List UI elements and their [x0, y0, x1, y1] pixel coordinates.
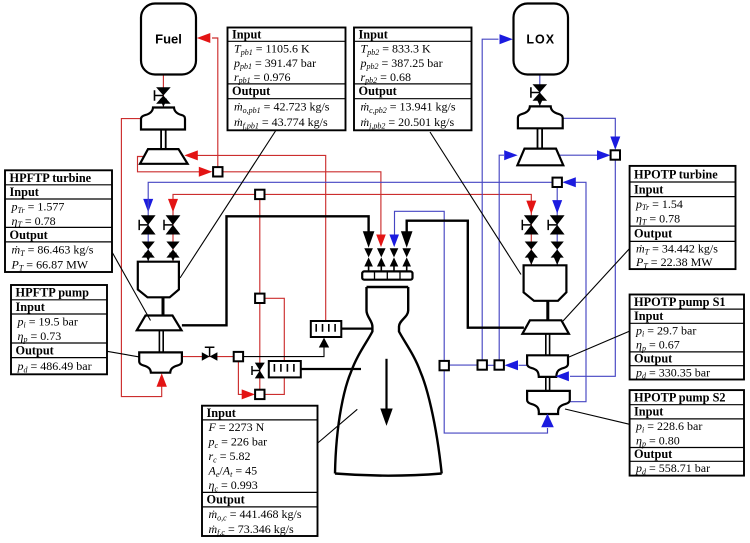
valve right LOX chain lower	[551, 242, 564, 258]
arrow into LPOTP pump inlet	[536, 98, 543, 106]
arrow down left preburner fuel chain	[168, 199, 178, 212]
leader HPOTP turbine box	[563, 249, 630, 322]
svg-text:Fuel: Fuel	[155, 32, 182, 47]
wire S1 discharge into junction J	[519, 364, 528, 366]
arrow into fuel tank	[197, 33, 211, 43]
wire fuel tank stem	[162, 75, 164, 109]
arrow into junction J	[505, 360, 519, 370]
injector bowtie valve 2	[377, 248, 386, 266]
wire junction E down and right to junction D	[238, 361, 246, 394]
svg-text:LOX: LOX	[526, 33, 555, 47]
valve right fuel chain lower	[525, 242, 538, 258]
injector bowtie valve 1	[364, 248, 373, 266]
leader HPOTP pump S2 box	[565, 409, 630, 424]
leader HPFTP pump box	[107, 351, 139, 357]
arrow up into S2 bottom	[541, 414, 554, 428]
wire LOX tank stem	[539, 75, 541, 108]
wire fuel recirculation to tank	[212, 38, 218, 167]
svg-text:HPFTP turbine: HPFTP turbine	[10, 171, 92, 185]
svg-text:pd = 558.71 bar: pd = 558.71 bar	[635, 461, 710, 476]
junction B	[255, 190, 264, 199]
arrow into LPOTP turbine left	[504, 150, 518, 160]
wire junction C to junction D through valve	[259, 303, 261, 390]
junction F	[553, 178, 562, 187]
valve HPFTP discharge horizontal	[202, 347, 218, 361]
HPOTP pump S2	[527, 391, 570, 414]
injector bowtie valve 3	[390, 248, 399, 266]
arrow into LPFTP pump inlet	[160, 99, 167, 107]
arrow into LOX preburner right port	[553, 256, 561, 265]
svg-text:Output: Output	[10, 228, 49, 242]
wire LPFTP pump inlet loop to HPFTP pump	[121, 119, 161, 397]
wire HX2 outlet to nozzle	[301, 368, 361, 370]
wire preburner fuel feed header y194	[173, 194, 531, 264]
shaft LPFTP	[161, 130, 166, 150]
arrow into HPFTP pump bottom	[157, 373, 167, 387]
svg-text:Input: Input	[10, 185, 40, 199]
LOX tank	[514, 4, 569, 75]
LPFTP pump	[141, 108, 185, 130]
HPOTP turbine	[522, 320, 569, 334]
svg-text:Input: Input	[634, 309, 664, 323]
injector big arrow 4 black	[401, 231, 413, 248]
HPFTP turbine data box	[5, 170, 112, 272]
arrow down right preburner LOX chain	[552, 200, 562, 213]
valve right fuel chain upper	[522, 215, 538, 234]
injector big arrow 1 black	[363, 231, 375, 248]
arrow down left preburner LOX chain	[143, 199, 153, 212]
wire HX1 feed line	[243, 347, 324, 357]
valve left fuel chain upper	[164, 215, 180, 234]
svg-text:Input: Input	[359, 28, 389, 42]
blue injector arrow	[389, 235, 399, 248]
arrow into junction A	[199, 167, 213, 177]
main LOX valve	[531, 84, 547, 100]
svg-text:HPOTP turbine: HPOTP turbine	[634, 167, 718, 181]
svg-text:HPOTP pump S2: HPOTP pump S2	[634, 391, 726, 405]
wire hot gas manifold left	[182, 216, 369, 325]
junction H	[440, 361, 449, 370]
LPOTP pump	[518, 106, 563, 128]
nozzle exit edge	[335, 474, 442, 476]
junction G	[611, 150, 620, 159]
svg-text:Output: Output	[634, 352, 673, 366]
junction D	[255, 390, 264, 399]
HPOTP pump S1	[527, 355, 568, 377]
wire junction J to junction I	[487, 364, 495, 366]
leader pb1 box to fuel preburner	[180, 131, 276, 278]
leader HPOTP pump S1 box	[569, 331, 630, 357]
svg-text:Output: Output	[634, 227, 673, 241]
wire junction A to injector red branch	[223, 172, 381, 235]
HPOTP pump S1 data box	[630, 295, 744, 381]
svg-text:Input: Input	[634, 182, 664, 196]
wire LPOTP turbine drive riser	[499, 155, 504, 360]
svg-text:Output: Output	[16, 343, 55, 357]
shaft HPFTP preburner-turbine	[162, 297, 165, 315]
arrow into junction F	[562, 177, 576, 187]
svg-text:HPFTP pump: HPFTP pump	[16, 286, 90, 300]
wire junction B to junction C vertical	[259, 199, 261, 294]
wire LOX header y182	[148, 182, 552, 199]
junction E	[234, 352, 243, 361]
wire LPOTP turbine exit	[560, 154, 597, 156]
arrow into junction G left	[597, 150, 611, 160]
leader chamber box	[317, 409, 358, 444]
leader HPFTP turbine box	[112, 252, 151, 321]
LOX preburner	[524, 265, 567, 301]
flow arrow inside nozzle	[385, 359, 387, 411]
valve on red riser	[252, 363, 265, 379]
svg-text:Input: Input	[634, 405, 664, 419]
arrow into fuel preburner right port	[169, 253, 177, 261]
wire junction I to junction H	[449, 364, 478, 366]
HPFTP pump data box	[11, 285, 107, 374]
svg-text:F = 2273 N: F = 2273 N	[208, 420, 265, 434]
shaft HPOTP turbine-S1	[546, 334, 550, 356]
shaft HPOTP S1-S2	[546, 377, 550, 391]
svg-text:pi = 29.7 bar: pi = 29.7 bar	[635, 324, 696, 339]
arrow into junction D	[242, 389, 255, 399]
wire LPOTP pump discharge	[563, 118, 616, 136]
svg-text:Output: Output	[232, 84, 271, 98]
wire HX1 outlet to nozzle	[341, 328, 373, 330]
svg-text:Input: Input	[207, 406, 237, 420]
junction I	[478, 360, 487, 369]
combustion chamber and nozzle	[335, 287, 442, 474]
svg-text:Output: Output	[634, 447, 673, 461]
red injector arrow	[376, 235, 386, 248]
injector bowtie valve 4	[402, 248, 411, 266]
valve left fuel chain lower	[166, 242, 179, 258]
arrow into fuel preburner left port	[144, 253, 152, 261]
svg-text:pi = 19.5 bar: pi = 19.5 bar	[17, 315, 78, 330]
wire hot gas manifold right	[407, 221, 524, 328]
svg-text:HPOTP pump S1: HPOTP pump S1	[634, 295, 726, 309]
leader pb2 box to LOX preburner	[430, 132, 521, 275]
svg-text:Output: Output	[207, 493, 246, 507]
HPOTP pump S2 data box	[630, 390, 744, 476]
wire bypass loop	[265, 298, 285, 394]
preburner2 data box	[354, 28, 472, 131]
junction J	[495, 360, 504, 369]
svg-text:ṁT = 86.463 kg/s: ṁT = 86.463 kg/s	[12, 243, 94, 258]
junction C	[255, 294, 264, 303]
shaft LPOTP	[538, 128, 543, 148]
junction A	[213, 167, 222, 176]
main fuel valve	[155, 87, 171, 103]
wire LPFTP turbine drive line from HX1	[198, 155, 326, 321]
svg-text:pi = 228.6 bar: pi = 228.6 bar	[635, 419, 702, 434]
arrow into LOX tank	[500, 34, 513, 44]
arrow into LPFTP turbine	[184, 150, 198, 160]
svg-text:Input: Input	[16, 300, 46, 314]
svg-text:Input: Input	[232, 28, 262, 42]
arrow into LOX preburner left port	[528, 256, 536, 265]
svg-text:Output: Output	[359, 84, 398, 98]
fuel preburner	[138, 262, 179, 298]
shaft HPFTP turbine-pump	[159, 330, 163, 352]
arrow down into junction G	[610, 137, 620, 150]
chamber data box	[202, 406, 318, 537]
svg-text:pd = 486.49 bar: pd = 486.49 bar	[17, 359, 92, 374]
shaft HPOTP preburner-turbine	[546, 301, 549, 321]
valve left LOX chain lower	[142, 242, 155, 258]
preburner1 data box	[228, 28, 346, 131]
HPFTP pump	[139, 352, 182, 372]
wire S2 discharge riser	[569, 182, 586, 401]
wire left LOX chain	[147, 199, 149, 262]
heat exchanger HX2	[269, 361, 301, 377]
arrow down right preburner fuel chain	[526, 201, 536, 214]
valve right LOX chain upper	[548, 215, 564, 234]
LPFTP turbine	[140, 149, 188, 164]
svg-text:Ae/At = 45: Ae/At = 45	[208, 464, 258, 479]
wire LPFTP turbine exit to junction	[138, 157, 201, 172]
wire right LOX chain	[556, 187, 558, 265]
LPOTP turbine	[517, 149, 563, 166]
injector plate	[362, 271, 412, 279]
wire HPFTP pump discharge	[182, 356, 234, 358]
injector valve stems	[369, 267, 407, 272]
wire main LOX line to injector	[395, 211, 445, 361]
wire LOX tank return riser	[482, 39, 498, 360]
valve left LOX chain upper	[139, 215, 155, 234]
HPFTP turbine	[137, 316, 182, 331]
wire junction H down to S2 inlet	[444, 370, 547, 433]
arrow up into HX1 bottom	[319, 338, 329, 348]
wire junction G down to S1 inlet	[570, 160, 615, 377]
fuel tank	[141, 4, 196, 75]
svg-text:pd = 330.35 bar: pd = 330.35 bar	[635, 366, 710, 381]
heat exchanger HX1	[311, 321, 342, 337]
arrow into S1 right side	[556, 371, 569, 381]
HPOTP turbine data box	[630, 166, 736, 271]
